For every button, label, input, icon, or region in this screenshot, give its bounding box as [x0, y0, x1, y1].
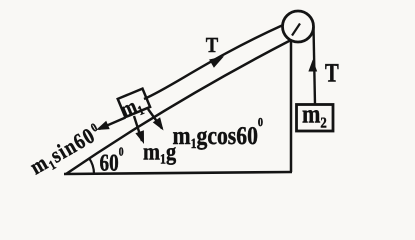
pulley axle mark: [292, 24, 300, 36]
rope T along incline: [144, 25, 283, 99]
block m1: [118, 89, 150, 118]
rope to m2: [314, 27, 316, 105]
svg-text:m1gcos600: m1gcos600: [173, 115, 264, 152]
m1gcos60 arrow: [148, 109, 162, 129]
incline surface (hypotenuse): [66, 40, 291, 174]
triangle base: [64, 172, 292, 174]
angle arc: [89, 158, 94, 174]
arrowhead on incline rope: [209, 56, 224, 68]
T arrow up on m2 rope: [308, 60, 317, 72]
m1g arrow: [134, 116, 142, 141]
svg-text:m1g: m1g: [143, 140, 176, 168]
svg-text:T: T: [325, 58, 339, 88]
m1sin60 arrow: [99, 118, 126, 130]
svg-text:T: T: [206, 33, 219, 57]
mass m2 box: [297, 105, 334, 132]
pulley: [283, 11, 314, 42]
triangle right side: [290, 40, 293, 172]
